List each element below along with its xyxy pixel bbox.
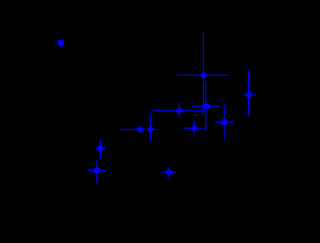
data point P1 (square marker, top left)	[58, 40, 64, 47]
data point P8 (diamond marker, shares horizontal bar with P9)	[120, 114, 158, 142]
data point P4 (square marker, centre cluster)	[192, 81, 220, 131]
data point P3 (circle marker, right side, thick vertical bar)	[243, 71, 256, 116]
short bar segment near node (195.8,115.3)	[193, 114, 199, 116]
data point P11 (circle marker, lower left)	[96, 139, 105, 160]
data point P12 (circle marker, lower left)	[88, 160, 105, 185]
data point P6 (circle marker)	[215, 104, 234, 140]
data point P9 (circle marker)	[137, 126, 143, 132]
data point P2 (diamond marker with long error bars)	[177, 33, 229, 115]
data point P13 (circle marker, bottom middle)	[162, 167, 176, 179]
data point P5 (diamond marker with wide horizontal bar)	[152, 104, 206, 118]
data point P7 (diamond marker)	[183, 121, 207, 136]
